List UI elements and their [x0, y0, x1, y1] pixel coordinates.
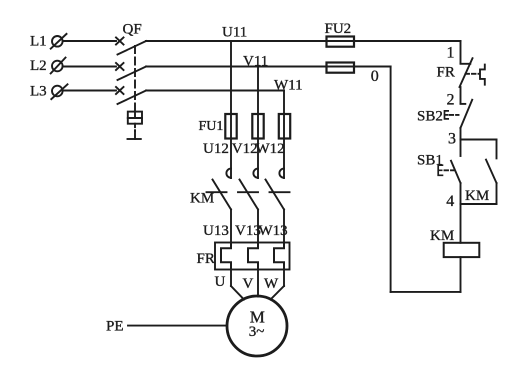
svg-text:QF: QF [123, 22, 142, 38]
svg-text:3~: 3~ [249, 324, 265, 340]
svg-text:L2: L2 [30, 58, 47, 74]
svg-text:V13: V13 [235, 223, 261, 239]
svg-text:U12: U12 [203, 141, 229, 157]
svg-text:W13: W13 [259, 223, 288, 239]
svg-text:PE: PE [106, 319, 124, 335]
svg-text:SB2: SB2 [417, 109, 443, 125]
svg-text:KM: KM [190, 191, 214, 207]
svg-text:KM: KM [430, 228, 454, 244]
svg-text:W: W [264, 276, 279, 292]
svg-text:3: 3 [448, 131, 456, 148]
svg-text:L1: L1 [30, 34, 47, 50]
svg-text:FU1: FU1 [199, 119, 224, 134]
svg-text:U13: U13 [203, 223, 229, 239]
svg-text:FR: FR [437, 65, 455, 81]
svg-text:W11: W11 [274, 78, 303, 94]
svg-text:SB1: SB1 [417, 153, 443, 169]
svg-text:U: U [215, 274, 226, 290]
svg-text:FR: FR [197, 251, 215, 267]
svg-text:2: 2 [447, 92, 455, 109]
svg-text:W12: W12 [256, 141, 285, 157]
svg-text:0: 0 [371, 68, 379, 85]
svg-text:KM: KM [465, 188, 489, 204]
svg-text:V11: V11 [243, 54, 268, 70]
svg-text:1: 1 [447, 45, 455, 62]
svg-text:L3: L3 [30, 84, 47, 100]
svg-text:4: 4 [446, 193, 454, 210]
svg-text:V12: V12 [232, 141, 258, 157]
svg-text:U11: U11 [222, 25, 247, 41]
svg-text:FU2: FU2 [325, 21, 352, 37]
svg-text:V: V [243, 276, 254, 292]
